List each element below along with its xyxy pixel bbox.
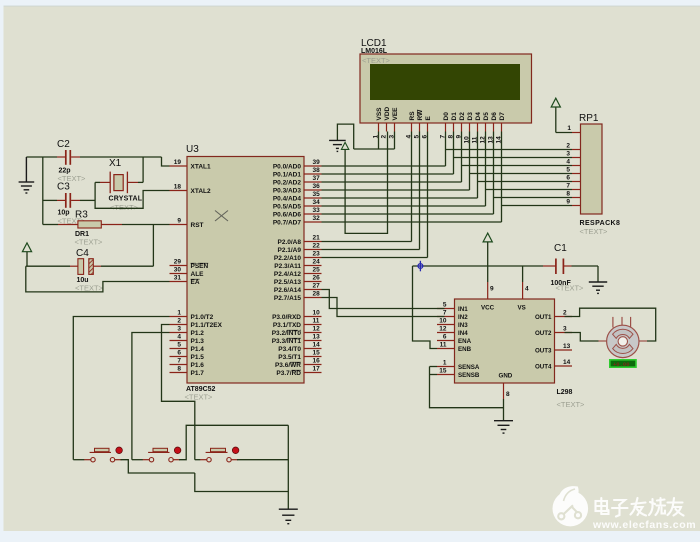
svg-text:P3.4/T0: P3.4/T0 (278, 346, 301, 353)
svg-text:P1.2: P1.2 (191, 330, 205, 337)
svg-text:P0.3/AD3: P0.3/AD3 (273, 187, 302, 194)
svg-text:18: 18 (174, 184, 182, 191)
svg-text:6: 6 (443, 334, 447, 341)
svg-text:1: 1 (443, 360, 447, 367)
svg-text:P0.1/AD1: P0.1/AD1 (273, 171, 302, 178)
svg-text:IN2: IN2 (458, 314, 468, 321)
svg-text:P2.6/A14: P2.6/A14 (274, 287, 301, 294)
svg-text:<TEXT>: <TEXT> (580, 227, 609, 236)
svg-text:6: 6 (566, 175, 570, 182)
svg-text:P3.5/T1: P3.5/T1 (278, 354, 301, 361)
svg-text:39: 39 (313, 159, 321, 166)
svg-text:L298: L298 (557, 389, 573, 396)
svg-text:9: 9 (566, 199, 570, 206)
svg-text:E: E (425, 116, 432, 121)
svg-text:OUT3: OUT3 (535, 347, 552, 354)
svg-text:12: 12 (439, 326, 447, 333)
svg-text:8: 8 (506, 391, 510, 398)
svg-text:<TEXT>: <TEXT> (75, 284, 104, 293)
svg-text:5: 5 (177, 342, 181, 349)
svg-text:11: 11 (313, 318, 320, 325)
svg-text:15: 15 (313, 350, 321, 357)
svg-text:C2: C2 (57, 139, 70, 150)
svg-text:7: 7 (177, 358, 181, 365)
svg-text:P2.5/A13: P2.5/A13 (274, 279, 301, 286)
svg-text:D7: D7 (499, 112, 506, 121)
svg-text:SENSA: SENSA (458, 364, 480, 371)
svg-text:<TEXT>: <TEXT> (557, 400, 586, 409)
svg-text:P2.2/A10: P2.2/A10 (274, 255, 301, 262)
svg-text:11: 11 (440, 342, 447, 349)
svg-text:RS: RS (409, 111, 416, 121)
svg-text:9: 9 (490, 286, 494, 293)
svg-text:ENA: ENA (458, 338, 472, 345)
svg-text:P0.2/AD2: P0.2/AD2 (273, 179, 302, 186)
svg-text:<TEXT>: <TEXT> (75, 238, 104, 247)
svg-text:RW: RW (417, 109, 424, 121)
svg-text:VEE: VEE (392, 107, 399, 121)
svg-text:2: 2 (563, 310, 567, 317)
svg-text:38: 38 (313, 167, 321, 174)
svg-text:3: 3 (566, 151, 570, 158)
svg-text:ALE: ALE (191, 271, 205, 278)
svg-text:C4: C4 (76, 248, 89, 259)
svg-text:9: 9 (177, 218, 181, 225)
svg-text:P3.6/WR: P3.6/WR (275, 362, 301, 369)
svg-text:P1.5: P1.5 (191, 354, 205, 361)
svg-text:P2.1/A9: P2.1/A9 (278, 247, 302, 254)
svg-text:IN3: IN3 (458, 322, 468, 329)
svg-text:+0.00: +0.00 (613, 361, 630, 368)
svg-text:D6: D6 (491, 112, 498, 121)
svg-text:RP1: RP1 (579, 113, 599, 124)
svg-text:27: 27 (313, 283, 321, 290)
svg-text:8: 8 (566, 191, 570, 198)
svg-text:30: 30 (174, 267, 182, 274)
svg-text:LM016L: LM016L (361, 48, 388, 55)
svg-text:4: 4 (566, 159, 570, 166)
svg-text:R3: R3 (75, 210, 88, 221)
svg-text:GND: GND (499, 373, 513, 380)
svg-text:37: 37 (313, 175, 321, 182)
svg-text:P1.4: P1.4 (191, 346, 205, 353)
svg-text:P1.3: P1.3 (191, 338, 205, 345)
svg-text:6: 6 (177, 350, 181, 357)
svg-text:3: 3 (563, 326, 567, 333)
svg-text:C3: C3 (57, 182, 70, 193)
svg-text:2: 2 (177, 318, 181, 325)
svg-text:32: 32 (313, 215, 321, 222)
svg-text:OUT1: OUT1 (535, 314, 552, 321)
svg-text:25: 25 (313, 267, 321, 274)
svg-text:4: 4 (525, 286, 529, 293)
svg-text:10: 10 (439, 318, 447, 325)
svg-text:www.elecfans.com: www.elecfans.com (592, 519, 696, 531)
svg-text:PSEN: PSEN (191, 263, 209, 270)
svg-text:13: 13 (563, 343, 571, 350)
svg-text:1: 1 (177, 310, 181, 317)
svg-text:D2: D2 (459, 112, 466, 121)
svg-text:P2.4/A12: P2.4/A12 (274, 271, 301, 278)
svg-text:P0.6/AD6: P0.6/AD6 (273, 211, 302, 218)
svg-text:23: 23 (313, 251, 321, 258)
svg-text:34: 34 (313, 199, 321, 206)
svg-text:EA: EA (191, 279, 200, 286)
svg-text:2: 2 (381, 135, 388, 139)
svg-text:RESPACK8: RESPACK8 (580, 220, 621, 227)
svg-text:<TEXT>: <TEXT> (110, 203, 139, 212)
svg-text:3: 3 (177, 326, 181, 333)
svg-text:P1.6: P1.6 (191, 362, 205, 369)
svg-text:<TEXT>: <TEXT> (185, 393, 214, 402)
svg-text:12: 12 (313, 326, 321, 333)
svg-text:IN4: IN4 (458, 330, 468, 337)
svg-text:IN1: IN1 (458, 306, 468, 313)
svg-text:D3: D3 (467, 112, 474, 121)
svg-text:19: 19 (174, 159, 182, 166)
svg-text:26: 26 (313, 275, 321, 282)
svg-text:P3.0/RXD: P3.0/RXD (272, 314, 301, 321)
svg-text:17: 17 (313, 366, 321, 373)
svg-text:D1: D1 (451, 112, 458, 121)
svg-text:P2.0/A8: P2.0/A8 (278, 239, 302, 246)
svg-text:P1.0/T2: P1.0/T2 (191, 314, 214, 321)
svg-text:P0.7/AD7: P0.7/AD7 (273, 219, 302, 226)
svg-text:P2.7/A15: P2.7/A15 (274, 295, 301, 302)
svg-text:X1: X1 (109, 158, 122, 169)
svg-text:XTAL2: XTAL2 (191, 188, 211, 195)
svg-text:4: 4 (177, 334, 181, 341)
svg-text:XTAL1: XTAL1 (191, 163, 211, 170)
svg-text:2: 2 (566, 143, 570, 150)
svg-text:7: 7 (566, 183, 570, 190)
svg-text:OUT4: OUT4 (535, 363, 552, 370)
svg-text:21: 21 (313, 235, 321, 242)
svg-text:33: 33 (313, 207, 321, 214)
svg-text:10: 10 (313, 310, 321, 317)
svg-text:28: 28 (313, 291, 321, 298)
svg-text:ENB: ENB (458, 346, 472, 353)
svg-text:15: 15 (439, 368, 447, 375)
svg-text:5: 5 (566, 167, 570, 174)
svg-text:P3.3/INT1: P3.3/INT1 (272, 338, 302, 345)
svg-text:VCC: VCC (481, 305, 495, 312)
svg-text:16: 16 (313, 358, 321, 365)
svg-text:D4: D4 (475, 112, 482, 121)
svg-text:CRYSTAL: CRYSTAL (109, 196, 143, 203)
svg-text:P0.4/AD4: P0.4/AD4 (273, 195, 302, 202)
svg-text:31: 31 (174, 275, 182, 282)
svg-text:P3.2/INT0: P3.2/INT0 (272, 330, 302, 337)
svg-text:P0.5/AD5: P0.5/AD5 (273, 203, 302, 210)
svg-text:<TEXT>: <TEXT> (362, 56, 391, 65)
svg-text:22: 22 (313, 243, 321, 250)
svg-text:24: 24 (313, 259, 321, 266)
svg-text:VSS: VSS (376, 107, 383, 121)
svg-text:VS: VS (518, 305, 526, 312)
svg-text:14: 14 (313, 342, 321, 349)
svg-text:P3.1/TXD: P3.1/TXD (273, 322, 301, 329)
svg-text:RST: RST (191, 222, 204, 229)
svg-text:U3: U3 (186, 144, 199, 155)
svg-text:10p: 10p (58, 210, 70, 217)
svg-text:13: 13 (313, 334, 321, 341)
svg-text:14: 14 (563, 359, 571, 366)
svg-text:D0: D0 (443, 112, 450, 121)
svg-text:7: 7 (443, 310, 447, 317)
svg-text:P3.7/RD: P3.7/RD (276, 370, 301, 377)
svg-text:<TEXT>: <TEXT> (556, 283, 585, 292)
svg-text:36: 36 (313, 183, 321, 190)
svg-text:P1.7: P1.7 (191, 370, 205, 377)
svg-text:OUT2: OUT2 (535, 330, 552, 337)
svg-text:SENSB: SENSB (458, 372, 480, 379)
svg-text:D5: D5 (483, 112, 490, 121)
svg-text:8: 8 (177, 366, 181, 373)
svg-text:35: 35 (313, 191, 321, 198)
svg-text:C1: C1 (554, 243, 567, 254)
svg-text:P2.3/A11: P2.3/A11 (274, 263, 301, 270)
svg-text:P0.0/AD0: P0.0/AD0 (273, 163, 302, 170)
svg-text:VDD: VDD (384, 106, 391, 120)
svg-text:5: 5 (443, 302, 447, 309)
svg-text:P1.1/T2EX: P1.1/T2EX (191, 322, 223, 329)
svg-text:1: 1 (567, 125, 571, 132)
svg-text:29: 29 (174, 259, 182, 266)
